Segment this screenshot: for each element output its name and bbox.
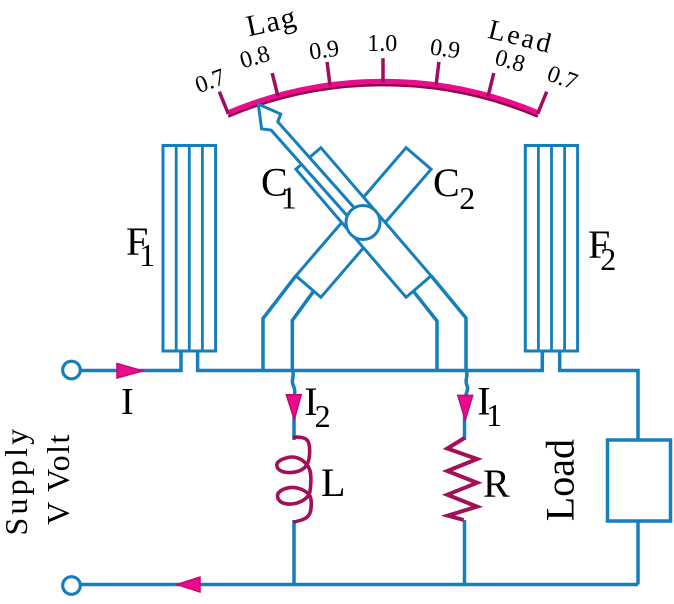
supply terminal top — [63, 361, 81, 379]
scale label 0.7 right — [544, 61, 581, 96]
moving coil C1 — [296, 148, 431, 298]
label I — [121, 381, 134, 423]
wire right vertical lower — [636, 521, 640, 585]
scale label Lead — [485, 14, 557, 60]
svg-text:0.7: 0.7 — [192, 64, 229, 99]
scale label 0.8 left — [237, 41, 273, 74]
needle with arrowhead — [258, 104, 354, 216]
svg-text:I: I — [121, 381, 134, 423]
scale label 0.8 right — [492, 45, 528, 78]
scale tick 0.8 right — [488, 73, 494, 96]
svg-text:R: R — [483, 461, 510, 506]
label F1 — [126, 219, 155, 273]
label C1 — [261, 160, 297, 216]
field coil F2 — [525, 146, 577, 352]
scale tick 1.0 — [381, 58, 385, 82]
wire top main middle segment — [198, 351, 543, 371]
label Supply V Volt — [0, 426, 76, 536]
label I2 — [304, 379, 330, 434]
scale tick 0.7 left — [219, 92, 228, 114]
wire R branch squiggle — [466, 371, 468, 397]
wire bottom main — [81, 583, 638, 587]
coil C2 lead outer — [263, 276, 296, 371]
wire R branch lower — [463, 520, 467, 585]
svg-text:I2: I2 — [304, 379, 330, 434]
label L — [321, 460, 345, 505]
svg-text:Supply: Supply — [0, 426, 34, 536]
svg-text:F1: F1 — [126, 219, 155, 273]
svg-text:I1: I1 — [477, 379, 502, 434]
scale tick 0.9 left — [327, 62, 330, 86]
svg-text:0.8: 0.8 — [237, 41, 273, 74]
svg-text:L: L — [321, 460, 345, 505]
svg-text:1.0: 1.0 — [367, 31, 397, 57]
scale label 1.0 — [367, 31, 397, 57]
meter scale arc — [228, 81, 538, 116]
scale label Lag — [243, 0, 300, 43]
svg-text:Load: Load — [537, 439, 582, 521]
pivot circle overlay — [346, 206, 380, 240]
wire L branch lower — [292, 520, 296, 585]
wire top main left segment — [80, 351, 181, 371]
svg-text:C1: C1 — [261, 160, 297, 216]
coil C2 lead inner — [292, 291, 313, 370]
scale tick 0.8 left — [272, 73, 278, 96]
label R — [483, 461, 510, 506]
scale label 0.9 left — [308, 36, 341, 66]
current arrow I2 — [286, 395, 301, 420]
scale label 0.9 right — [428, 34, 461, 64]
wire L branch squiggle — [292, 371, 294, 397]
moving coil C2 — [296, 148, 431, 298]
current arrow I1 — [458, 395, 473, 420]
scale label 0.7 left — [192, 64, 229, 99]
svg-text:0.7: 0.7 — [544, 61, 581, 96]
coil C1 lead inner — [414, 291, 438, 370]
label C2 — [433, 160, 475, 216]
svg-text:V Volt: V Volt — [40, 433, 76, 525]
label Load — [537, 439, 582, 521]
svg-text:0.9: 0.9 — [428, 34, 461, 64]
svg-text:F2: F2 — [588, 222, 616, 277]
coil C1 lead outer — [431, 276, 466, 371]
supply terminal bottom — [63, 577, 81, 595]
wire L branch — [292, 396, 296, 440]
label F2 — [588, 222, 616, 277]
load box — [608, 440, 671, 521]
scale tick 0.9 right — [436, 62, 439, 86]
svg-text:Lag: Lag — [243, 0, 300, 43]
resistor R — [447, 438, 477, 520]
svg-text:0.9: 0.9 — [308, 36, 341, 66]
return arrow bottom — [177, 577, 200, 592]
inductor L — [277, 437, 311, 522]
scale tick 0.7 right — [538, 92, 547, 114]
wire R branch — [463, 396, 467, 440]
svg-text:C2: C2 — [433, 160, 475, 216]
current arrow I — [117, 364, 143, 379]
field coil F1 — [163, 146, 216, 352]
wire top main right segment and right vertical — [560, 351, 638, 441]
label I1 — [477, 379, 502, 434]
